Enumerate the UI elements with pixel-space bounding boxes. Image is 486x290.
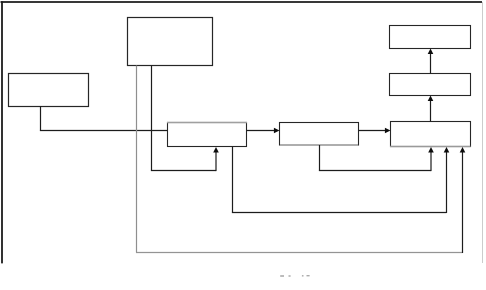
wire rising into box C bottom (left) xyxy=(430,151,432,171)
arrowhead into box C bottom (middle) xyxy=(444,147,450,153)
box L (left block) xyxy=(9,74,89,107)
wire from box T bottom down (gray long feedback) xyxy=(136,66,138,253)
box C (middle-row third block) xyxy=(390,122,471,147)
wire rising into box A bottom xyxy=(215,151,217,171)
wire rising into box C bottom (right) xyxy=(462,151,464,253)
box A (middle-row first block) xyxy=(167,123,247,147)
box R1 (right top block) xyxy=(390,26,471,49)
wire horizontal to below box A xyxy=(151,170,216,172)
wire horizontal feedback under box B xyxy=(319,170,431,172)
box B (middle-row second block) xyxy=(280,123,359,146)
caption fragment (cut-off text tops at bottom) xyxy=(280,275,309,277)
wire from box T bottom down (black) xyxy=(151,66,153,171)
arrow from box C top to box R2 bottom xyxy=(428,96,434,122)
wire from box A bottom down (feedback) xyxy=(232,147,234,213)
arrowhead into box C bottom (right) xyxy=(460,147,466,153)
frame left border xyxy=(1,1,3,263)
arrow from box A to box B xyxy=(247,128,280,134)
arrow from box B to box C xyxy=(359,128,391,134)
wire from box L into box A left xyxy=(40,130,168,132)
wire from box L bottom down xyxy=(40,106,42,131)
wire from box B bottom down (feedback) xyxy=(319,145,321,171)
wire rising into box C bottom (middle) xyxy=(446,151,448,213)
frame top border xyxy=(1,1,483,3)
arrowhead into box C bottom (left) xyxy=(428,147,434,153)
wire horizontal feedback bottom xyxy=(136,252,463,254)
arrow from box R2 top to box R1 bottom xyxy=(428,49,434,74)
box R2 (right middle block) xyxy=(390,74,471,96)
frame right border xyxy=(482,2,484,263)
arrowhead into box A bottom xyxy=(213,147,219,153)
wire horizontal feedback middle xyxy=(232,212,447,214)
box T (top block) xyxy=(128,18,213,66)
